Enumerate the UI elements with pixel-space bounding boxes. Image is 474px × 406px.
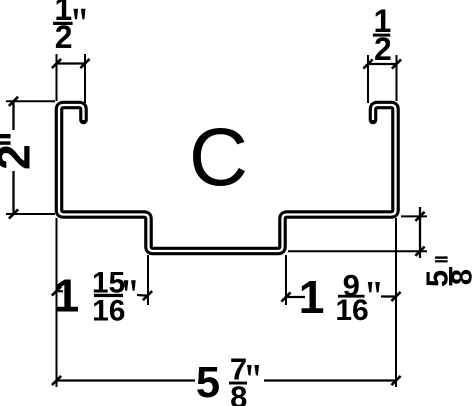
dimension 1/2 inch (top-left lip width) [52,0,90,103]
svg-text:2: 2 [374,31,392,67]
svg-text:1: 1 [299,271,325,323]
C-channel profile outline (sheet-metal double line) [59,105,396,251]
svg-text:16: 16 [92,295,125,328]
svg-text:16: 16 [335,294,368,327]
dimension 5/8 inch (web recess depth, right side) [288,207,474,287]
dimension 5 7/8 inch (overall width) [52,218,401,406]
svg-text:C: C [189,112,248,203]
svg-text:2: 2 [0,144,40,170]
svg-text:2: 2 [55,19,73,55]
svg-text:8: 8 [230,379,247,406]
svg-text:5: 5 [196,359,220,406]
dimension 1/2 inch (top-right lip width) [363,3,401,103]
dimension 2 inch (left leg height) [0,97,55,219]
dimension 1 9/16 inch (right flange) [281,255,400,327]
dimension 1 15/16 inch (left flange) [52,255,152,328]
